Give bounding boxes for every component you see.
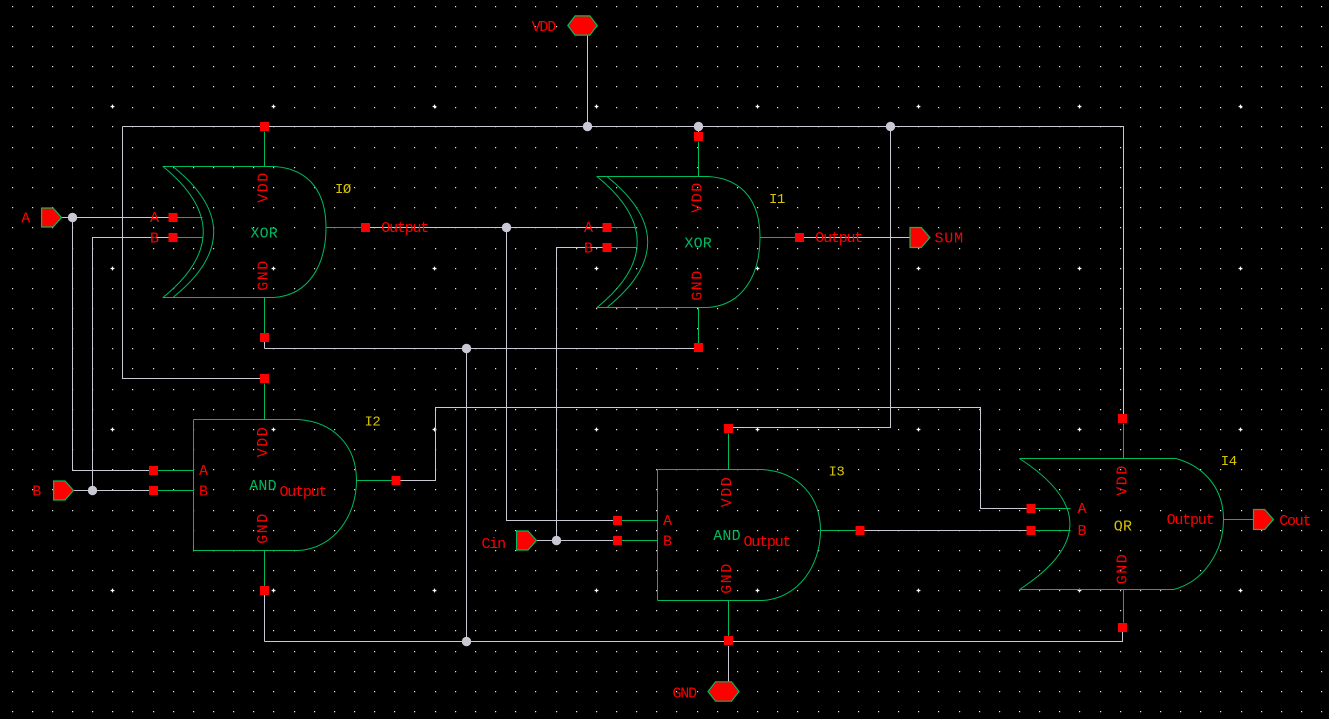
svg-text:B: B bbox=[199, 484, 208, 501]
svg-text:B: B bbox=[1078, 523, 1087, 540]
svg-text:A: A bbox=[150, 210, 159, 227]
svg-text:VDD: VDD bbox=[719, 476, 736, 508]
svg-text:A: A bbox=[584, 220, 593, 237]
svg-text:Cout: Cout bbox=[1279, 513, 1310, 530]
svg-text:GND: GND bbox=[689, 269, 706, 301]
svg-text:SUM: SUM bbox=[935, 231, 964, 248]
svg-text:XOR: XOR bbox=[684, 236, 712, 253]
svg-text:VDD: VDD bbox=[1114, 464, 1131, 496]
svg-text:GND: GND bbox=[255, 259, 272, 291]
svg-text:A: A bbox=[199, 463, 208, 480]
svg-text:B: B bbox=[663, 534, 672, 551]
svg-text:VDD: VDD bbox=[255, 426, 272, 458]
svg-text:Output: Output bbox=[1167, 512, 1214, 529]
svg-text:Output: Output bbox=[815, 230, 862, 247]
svg-text:VDD: VDD bbox=[689, 181, 706, 213]
svg-text:GND: GND bbox=[1114, 553, 1131, 585]
svg-text:AND: AND bbox=[249, 478, 277, 495]
svg-text:XOR: XOR bbox=[250, 226, 278, 243]
svg-text:A: A bbox=[663, 513, 672, 530]
svg-text:I3: I3 bbox=[829, 465, 845, 481]
svg-text:AND: AND bbox=[713, 528, 741, 545]
svg-text:B: B bbox=[150, 231, 159, 248]
svg-text:IØ: IØ bbox=[335, 182, 351, 198]
svg-text:Output: Output bbox=[280, 484, 327, 501]
svg-text:B: B bbox=[32, 484, 41, 501]
svg-text:A: A bbox=[21, 210, 30, 227]
svg-text:A: A bbox=[1078, 501, 1087, 518]
svg-text:GND: GND bbox=[673, 685, 698, 702]
svg-text:VDD: VDD bbox=[255, 171, 272, 203]
svg-text:VDD: VDD bbox=[532, 19, 557, 36]
svg-text:Output: Output bbox=[381, 220, 428, 237]
svg-text:Output: Output bbox=[744, 534, 791, 551]
svg-text:I2: I2 bbox=[365, 415, 381, 431]
svg-text:OR: OR bbox=[1114, 519, 1132, 536]
svg-text:GND: GND bbox=[719, 562, 736, 594]
svg-text:I1: I1 bbox=[769, 192, 785, 208]
svg-text:GND: GND bbox=[255, 512, 272, 544]
svg-text:I4: I4 bbox=[1221, 454, 1237, 470]
svg-text:Cin: Cin bbox=[482, 536, 506, 553]
svg-text:B: B bbox=[584, 241, 593, 258]
